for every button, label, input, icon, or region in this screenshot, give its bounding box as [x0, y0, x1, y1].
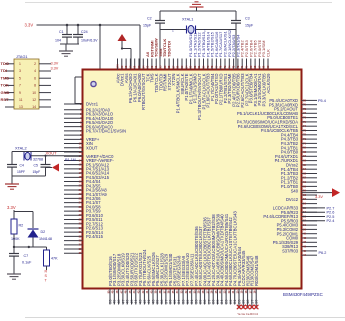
pin stub U1 right 44 [302, 254, 318, 256]
svg-text:TCK: TCK [1, 83, 9, 88]
pin stub U1 bottom 44 [135, 289, 137, 305]
pin stub U1 left 14 [64, 159, 83, 161]
pin stub U1 top 99 [121, 59, 123, 70]
svg-text:47K: 47K [51, 257, 58, 261]
svg-text:100K: 100K [11, 237, 20, 241]
pin stub U1 bottom 48 [118, 289, 120, 305]
pin stub U1 top 69 [250, 59, 252, 70]
pin stub U1 top 96 [134, 59, 136, 70]
pin stub U1 top 71 [241, 59, 243, 70]
IC U1 MSP430F449 body [83, 70, 302, 289]
pin stub U1 top 78 [211, 59, 213, 70]
wire net P2.5 [302, 216, 326, 218]
svg-text:4: 4 [34, 69, 36, 73]
JTAG pin 8 stub [39, 84, 51, 86]
pin stub U1 left 9 [64, 138, 83, 140]
svg-text:3.3V: 3.3V [315, 194, 323, 199]
pin stub U1 right 49 [302, 233, 318, 235]
svg-text:S37/R03: S37/R03 [282, 249, 299, 254]
pin 1 marker [91, 81, 96, 86]
wire net P2.4 [302, 220, 326, 222]
wire ground rail under caps [60, 43, 79, 45]
svg-text:XOUT: XOUT [46, 150, 58, 155]
svg-text:P2.4/S15: P2.4/S15 [86, 234, 104, 239]
ground (decoupling caps) [59, 50, 73, 52]
pin stub U1 left 20 [64, 185, 83, 187]
pin stub U1 left 30 [64, 227, 83, 229]
svg-text:9: 9 [19, 91, 21, 95]
pin stub U1 left 19 [64, 181, 83, 183]
wire VCC to pin [122, 48, 131, 50]
wire DVcc feed: horizontal [75, 76, 100, 78]
pin stub U1 top 86 [177, 59, 179, 70]
wire C1 bottom lead [66, 37, 68, 44]
wire 3.3V over to diode [14, 211, 33, 213]
wire C7 bottom lead [13, 256, 15, 274]
pin stub U1 left 10 [64, 143, 83, 145]
pin stub U1 top 66 [263, 59, 265, 70]
pin stub U1 top 74 [228, 59, 230, 70]
svg-text:D2: D2 [41, 230, 46, 234]
pin stub U1 top 88 [168, 59, 170, 70]
svg-text:GND: GND [1, 90, 10, 95]
ground (reset) [7, 273, 21, 275]
pin stub U1 bottom 37 [165, 289, 167, 305]
pin stub U1 top 89 [164, 59, 166, 70]
JTAG pin 4 stub [39, 70, 51, 72]
svg-text:DVcc1: DVcc1 [86, 102, 99, 107]
pin stub U1 left 16 [64, 168, 83, 170]
pin stub U1 left 17 [64, 172, 83, 174]
pin stub U1 top 97 [129, 59, 131, 70]
pin stub U1 bottom 22 [229, 289, 231, 305]
wire gnd stem [196, 7, 198, 11]
pin stub U1 right 70 [302, 142, 318, 144]
svg-text:R: R [45, 270, 48, 274]
pin stub U1 left 36 [64, 252, 83, 254]
svg-text:44: 44 [303, 253, 307, 257]
wire right leg lower [235, 23, 237, 69]
crystal XTAL2 symbol [25, 152, 30, 160]
capacitor C7 0.1uF [9, 253, 19, 255]
pin stub U1 right 74 [302, 125, 318, 127]
node junction C24 [77, 24, 80, 27]
wire diode top lead [32, 212, 34, 229]
resistor R3 47K [44, 250, 50, 266]
pin stub U1 bottom 43 [139, 289, 141, 305]
no-connect X mark 1 [237, 305, 241, 309]
svg-text:11: 11 [19, 98, 23, 102]
pin stub U1 bottom 28 [204, 289, 206, 305]
pin stub U1 bottom 21 [234, 289, 236, 305]
wire VCC arrow stem [121, 41, 123, 49]
power arrow 3.3V (right) [332, 188, 340, 197]
ground (XTAL1, red, pointing up) [190, 6, 204, 8]
pin stub U1 bottom 36 [169, 289, 171, 305]
pin stub U1 top 94 [142, 59, 144, 70]
pin stub U1 top 79 [207, 59, 209, 70]
capacitor C4 15PF [11, 164, 13, 165]
svg-text:1: 1 [204, 29, 206, 33]
JTAG pin 14 stub [39, 106, 51, 108]
pin stub U1 left 5 [64, 121, 83, 123]
pin stub U1 left 4 [64, 117, 83, 119]
wire DVcc feed into chip pin 1 [75, 103, 83, 105]
pin stub U1 top 82 [194, 59, 196, 70]
pin stub U1 right 46 [302, 246, 318, 248]
svg-text:1: 1 [172, 29, 174, 33]
pin stub U1 left 21 [64, 189, 83, 191]
svg-text:100: 100 [116, 64, 120, 69]
wire AVcc drop from rail [139, 25, 141, 70]
svg-text:3: 3 [19, 69, 21, 73]
wire R2 bottom lead [13, 234, 15, 247]
pin stub U1 left 23 [64, 197, 83, 199]
svg-text:1: 1 [19, 62, 21, 66]
svg-text:10uF/6.3V: 10uF/6.3V [81, 39, 98, 43]
svg-text:JTAG1: JTAG1 [16, 55, 28, 59]
pin stub U1 left 1 [64, 103, 83, 105]
wire C4 bottom [11, 167, 13, 176]
pin stub U1 bottom 34 [178, 289, 180, 305]
wire diode bottom lead [32, 238, 34, 248]
pin stub U1 bottom 42 [143, 289, 145, 305]
pin stub U1 left 15 [64, 164, 83, 166]
pin stub U1 left 35 [64, 248, 83, 250]
ground (XTAL2, red) [5, 183, 19, 185]
svg-text:C4: C4 [20, 164, 24, 168]
pin stub U1 top 67 [258, 59, 260, 70]
svg-text:32768: 32768 [33, 158, 43, 162]
pin stub U1 right 73 [302, 130, 318, 132]
wire left leg lower [159, 23, 161, 69]
svg-text:3.3V: 3.3V [25, 23, 34, 28]
pin stub U1 right 48 [302, 237, 318, 239]
svg-text:XTAL2: XTAL2 [15, 146, 27, 151]
wire pin stub DVcc [130, 49, 132, 70]
svg-text:RST: RST [1, 97, 10, 102]
svg-text:C7: C7 [24, 254, 29, 258]
svg-text:Ya: Ya [237, 312, 241, 316]
pin stub U1 left 6 [64, 126, 83, 128]
pin stub U1 top 92 [151, 59, 153, 70]
wire XIN rail [12, 151, 83, 153]
svg-text:3.3V: 3.3V [51, 67, 59, 71]
junction RST node [28, 246, 30, 248]
pin stub U1 right 75 [302, 121, 318, 123]
svg-text:R1 1M: R1 1M [65, 158, 76, 162]
pin stub U1 top 73 [233, 59, 235, 70]
pin stub U1 right 58 [302, 194, 318, 196]
svg-text:0.1uF: 0.1uF [22, 261, 32, 265]
pin stub U1 top 70 [246, 59, 248, 70]
wire C24 lead [77, 25, 79, 34]
pin stub U1 right 79 [302, 104, 318, 106]
pin stub U1 left 28 [64, 219, 83, 221]
pin stub U1 left 3 [64, 113, 83, 115]
pin stub U1 right 63 [302, 173, 318, 175]
svg-text:10: 10 [32, 91, 36, 95]
pin stub U1 right 54 [302, 211, 318, 213]
pin stub U1 top 83 [190, 59, 192, 70]
svg-text:13: 13 [19, 105, 23, 109]
svg-text:15PF: 15PF [17, 170, 25, 174]
power arrow (left, red) [52, 164, 59, 172]
pin stub U1 right 51 [302, 224, 318, 226]
pin stub U1 bottom 25 [217, 289, 219, 305]
svg-text:15pF: 15pF [245, 24, 254, 28]
wire C1 lead [66, 25, 68, 34]
svg-text:ACLK/S29: ACLK/S29 [266, 73, 271, 94]
svg-text:C3: C3 [245, 17, 250, 21]
wire right leg to C5 [45, 156, 47, 165]
pin stub U1 bottom 47 [122, 289, 124, 305]
pin stub U1 bottom 45 [131, 289, 133, 305]
pin stub U1 left 22 [64, 193, 83, 195]
wire ground rail XTAL2 [12, 175, 46, 177]
pin stub U1 bottom 46 [126, 289, 128, 305]
pin stub U1 top 75 [224, 59, 226, 70]
diode D2 1N4148 [28, 228, 39, 230]
svg-text:12: 12 [32, 98, 36, 102]
JTAG pin 9 stub [5, 92, 14, 94]
pin stub U1 bottom 35 [174, 289, 176, 305]
pin stub U1 left 13 [64, 155, 83, 157]
svg-text:3.3V: 3.3V [7, 205, 16, 210]
svg-text:R2: R2 [19, 224, 24, 228]
JTAG pin 11 stub [5, 99, 14, 101]
svg-text:15pF: 15pF [143, 24, 152, 28]
power arrow VCC (top of chip) [118, 34, 127, 41]
svg-text:S40: S40 [291, 188, 299, 193]
pin stub U1 left 24 [64, 202, 83, 204]
svg-text:BSM430F449IPZSC: BSM430F449IPZSC [283, 292, 323, 297]
svg-text:8: 8 [34, 84, 36, 88]
wire left leg [159, 11, 161, 20]
wire RST node rail [14, 246, 47, 248]
pin stub U1 bottom 39 [156, 289, 158, 305]
pin stub U1 bottom 38 [161, 289, 163, 305]
pin stub U1 top 68 [254, 59, 256, 70]
svg-text:5: 5 [19, 76, 21, 80]
pin stub U1 left 2 [64, 109, 83, 111]
pin stub U1 top 85 [181, 59, 183, 70]
svg-text:7: 7 [19, 84, 21, 88]
svg-text:CLK: CLK [266, 49, 271, 57]
pin stub U1 right 68 [302, 151, 318, 153]
pin stub U1 right 65 [302, 164, 318, 166]
svg-text:TMS: TMS [1, 75, 10, 80]
pin stub U1 top 65 [267, 59, 269, 70]
node junction C1 [66, 24, 69, 27]
pin stub U1 bottom 24 [221, 289, 223, 305]
pin stub U1 bottom 16 [255, 289, 257, 309]
pin stub U1 bottom 33 [182, 289, 184, 305]
pin stub U1 left 27 [64, 214, 83, 216]
pin stub U1 right 80 [302, 99, 318, 101]
pin stub U1 right 62 [302, 177, 318, 179]
capacitor C2 15pF [155, 20, 165, 22]
svg-text:16: 16 [254, 299, 259, 304]
pin stub U1 left 29 [64, 223, 83, 225]
pin stub U1 right 59 [302, 190, 318, 192]
svg-text:C1: C1 [59, 30, 64, 34]
connector JTAG1 body [14, 59, 39, 109]
no-connect X mark 3 [245, 305, 249, 309]
pin stub U1 right 55 [302, 207, 318, 209]
wire DVcc feed: down from junction [99, 25, 101, 77]
svg-text:15pF: 15pF [33, 170, 41, 174]
wire right leg [235, 11, 237, 20]
wire net P2.6 [302, 211, 326, 213]
svg-text:P2.4: P2.4 [327, 219, 335, 223]
pin stub U1 right 67 [302, 155, 318, 157]
pin stub U1 top 84 [185, 59, 187, 70]
pin stub U1 right 57 [302, 198, 318, 200]
pin stub U1 top 77 [215, 59, 217, 70]
pin stub U1 top 98 [125, 59, 127, 70]
pin stub U1 right 77 [302, 112, 318, 114]
svg-text:1N4148: 1N4148 [39, 237, 52, 241]
JTAG pin 10 stub [39, 92, 51, 94]
pin stub U1 right 60 [302, 185, 318, 187]
pin stub U1 top 100 [117, 59, 119, 70]
pin stub U1 right 52 [302, 220, 318, 222]
pin stub U1 left 33 [64, 240, 83, 242]
wire crystal left node [11, 152, 13, 164]
pin stub U1 bottom 29 [199, 289, 201, 305]
wire net P2.7 [302, 207, 326, 209]
no-connect X mark 2 [241, 305, 245, 309]
pin stub U1 right 53 [302, 216, 318, 218]
pin stub U1 right 76 [302, 117, 318, 119]
wire 3.3V rail [37, 24, 141, 26]
svg-text:P6.2: P6.2 [319, 251, 327, 255]
capacitor C5 15pF [41, 164, 51, 166]
node junction at x100 [99, 24, 102, 27]
pin stub U1 bottom 27 [208, 289, 210, 305]
pin stub U1 left 8 [64, 134, 83, 136]
svg-text:C4: C4 [254, 312, 258, 316]
svg-text:6: 6 [34, 76, 36, 80]
wire crystal rail left [160, 29, 187, 31]
pin stub U1 top 93 [147, 59, 149, 70]
svg-text:C24: C24 [81, 30, 88, 34]
sheet border line bottom [25, 317, 345, 319]
JTAG pin 13 stub [5, 106, 14, 108]
pin stub U1 left 26 [64, 210, 83, 212]
wire arrow stub [46, 167, 53, 169]
svg-text:P5.4: P5.4 [318, 99, 326, 103]
pin stub U1 bottom 40 [152, 289, 154, 305]
JTAG pin 6 stub [39, 77, 51, 79]
svg-text:TDI: TDI [1, 68, 7, 73]
pin stub U1 bottom 23 [225, 289, 227, 305]
capacitor C1 104 [62, 34, 72, 36]
pin stub U1 bottom 30 [195, 289, 197, 305]
pin stub U1 left 31 [64, 231, 83, 233]
svg-text:DVcc2: DVcc2 [286, 197, 299, 202]
pin stub U1 right 61 [302, 181, 318, 183]
pin stub U1 bottom 50 [109, 289, 111, 305]
pin stub U1 bottom 18 [247, 289, 249, 309]
wire gnd stem XTAL2 [11, 176, 13, 184]
wire XOUT rail [31, 155, 83, 157]
pin stub U1 right 66 [302, 160, 318, 162]
svg-text:2: 2 [34, 62, 36, 66]
wire crystal rail right [196, 29, 237, 31]
pin stub U1 top 91 [155, 59, 157, 70]
pin stub U1 left 18 [64, 176, 83, 178]
pin stub U1 top 81 [198, 59, 200, 70]
pin stub U1 bottom 31 [191, 289, 193, 305]
JTAG pin 5 stub [5, 77, 14, 79]
resistor R2 100K [11, 219, 17, 234]
wire 3.3V down [13, 210, 15, 219]
pin stub U1 left 34 [64, 244, 83, 246]
wire C5 bottom [45, 167, 47, 176]
svg-text:R03/COM1/S48: R03/COM1/S48 [254, 255, 259, 286]
JTAG pin 12 stub [39, 99, 51, 101]
pin stub U1 right 78 [302, 108, 318, 110]
pin stub U1 top 87 [172, 59, 174, 70]
svg-text:XTAL1: XTAL1 [182, 18, 193, 22]
pin stub U1 top 95 [138, 59, 140, 70]
pin stub U1 left 25 [64, 206, 83, 208]
capacitor C3 15pF [231, 20, 241, 22]
wire XTAL1 top rail [160, 10, 236, 12]
pin stub U1 right 64 [302, 168, 318, 170]
JTAG pin 1 stub [5, 63, 14, 65]
pin stub U1 right 72 [302, 134, 318, 136]
pin stub U1 top 80 [203, 59, 205, 70]
wire R3 top lead [46, 247, 48, 250]
JTAG pin 2 stub [39, 63, 51, 65]
pin stub U1 bottom 26 [212, 289, 214, 305]
pin stub U1 top 76 [220, 59, 222, 70]
pin stub U1 bottom 49 [113, 289, 115, 305]
pin stub U1 right 69 [302, 147, 318, 149]
wire ground stem [65, 44, 67, 51]
wire R3 bottom lead [46, 266, 48, 270]
svg-text:XOUT: XOUT [86, 145, 98, 150]
JTAG pin 3 stub [5, 70, 14, 72]
JTAG pin 7 stub [5, 84, 14, 86]
pin stub U1 left 7 [64, 130, 83, 132]
svg-text:3.3V: 3.3V [51, 62, 59, 66]
svg-text:C5: C5 [34, 164, 38, 168]
svg-text:104: 104 [55, 39, 61, 43]
no-connect X mark 5 [254, 305, 258, 309]
pin stub U1 bottom 19 [242, 289, 244, 309]
svg-text:TDO: TDO [1, 61, 9, 66]
pin stub U1 right 47 [302, 241, 318, 243]
pin stub U1 right 45 [302, 250, 318, 252]
svg-text:C2: C2 [147, 17, 152, 21]
pin stub U1 right 56 [302, 203, 318, 205]
pin stub U1 right 50 [302, 228, 318, 230]
pin stub U1 bottom 41 [148, 289, 150, 305]
wire DVcc feed: down left of chip [74, 77, 76, 104]
capacitor C24 10uF/6.3V [73, 34, 83, 36]
pin stub U1 left 12 [64, 151, 83, 153]
no-connect X mark 4 [250, 305, 254, 309]
svg-text:TDO/TDI: TDO/TDI [167, 41, 172, 57]
pin stub U1 left 11 [64, 147, 83, 149]
pin stub U1 bottom 20 [238, 289, 240, 309]
sheet border line top [25, 2, 332, 4]
pin stub U1 right 71 [302, 138, 318, 140]
